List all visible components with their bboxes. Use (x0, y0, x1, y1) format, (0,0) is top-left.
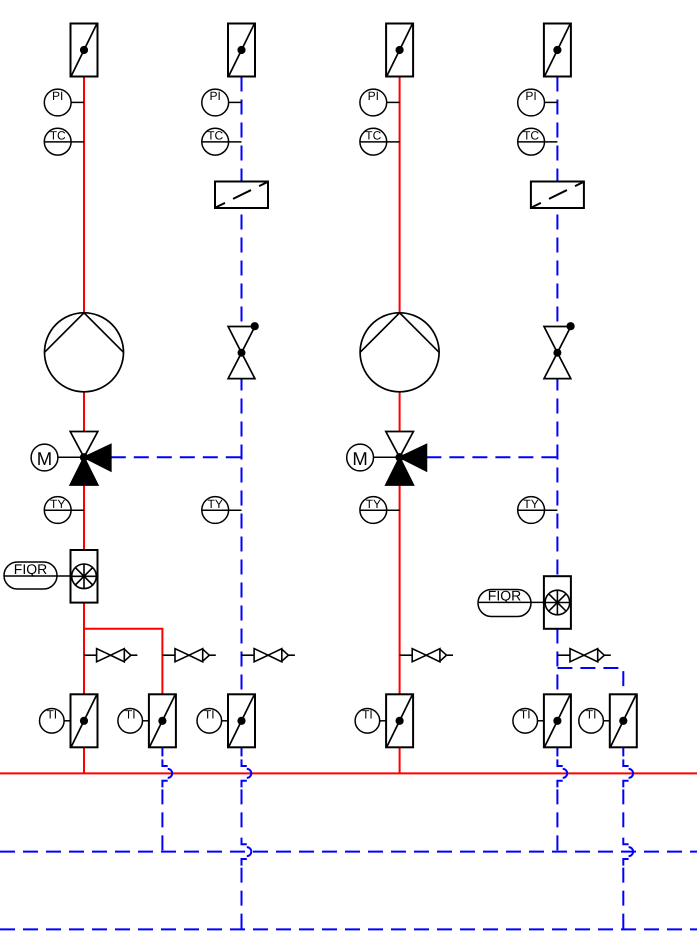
temperature sensor box D (386, 694, 413, 747)
instrument TY 1 chord (44, 509, 84, 511)
instrument TY 3 (360, 497, 387, 524)
pump P2 (360, 313, 439, 392)
svg-text:TI: TI (586, 707, 597, 721)
temperature sensor box B (149, 694, 176, 747)
instrument TI F (579, 709, 604, 734)
instrument TI E stub (537, 720, 544, 722)
wire F2 hop arc over bus (629, 847, 634, 856)
hand valve HV5 (557, 649, 610, 662)
instrument PI line1 stub (71, 101, 84, 103)
instrument TI A stub (64, 720, 71, 722)
motor M V1 (31, 444, 58, 471)
FIQR bubble line1 (4, 562, 57, 589)
wire F2 hop elbow bottom (623, 859, 628, 866)
wire F1 hop elbow top (623, 759, 628, 766)
temperature sensor box A (71, 694, 98, 747)
wire C2 hop elbow bottom (242, 859, 247, 866)
instrument TI A (40, 709, 65, 734)
wire E to blue bus 1 (556, 789, 558, 851)
hand valve HV4 (400, 649, 453, 662)
instrument TI B stub (142, 720, 149, 722)
instrument TC line1 (44, 128, 71, 155)
svg-text:TY: TY (50, 497, 65, 511)
instrument PI line4 (518, 89, 545, 116)
instrument TC line4 (518, 128, 545, 155)
instrument TI B (118, 709, 143, 734)
svg-text:TC: TC (365, 129, 381, 143)
wire blue bus 2 (0, 928, 697, 930)
svg-text:TY: TY (366, 497, 381, 511)
heat exchanger box line1 (71, 24, 98, 77)
heat exchanger box line2 (228, 24, 255, 77)
svg-text:PI: PI (525, 89, 536, 103)
svg-text:TI: TI (204, 707, 215, 721)
wire below TI box E (556, 747, 558, 756)
flow meter line1 (71, 550, 98, 603)
wire C between buses (241, 789, 243, 834)
wire F1 hop arc over bus (629, 769, 634, 778)
wire C1 hop elbow bottom (242, 781, 247, 788)
wire F1 hop elbow bottom (623, 781, 628, 788)
instrument TI D stub (379, 720, 386, 722)
hand valve HV3 (242, 649, 295, 662)
FIQR line link line1 (4, 575, 71, 577)
wire return line 2 (blue dashed) (241, 77, 243, 748)
instrument TI C stub (221, 720, 228, 722)
instrument PI line2 stub (229, 101, 242, 103)
hand valve HV2 (162, 649, 215, 662)
svg-text:TI: TI (520, 707, 531, 721)
svg-text:TY: TY (523, 497, 538, 511)
motor link V2 (373, 456, 400, 458)
svg-text:TC: TC (523, 129, 539, 143)
wire blue elbow branch line4 to TI box F (557, 668, 623, 695)
wire E hop arc over bus (563, 769, 568, 778)
svg-text:PI: PI (368, 89, 379, 103)
FIQR chord line1 (4, 575, 57, 577)
wire C2 hop elbow top (242, 838, 247, 845)
wire B to blue bus 1 (161, 789, 163, 851)
wire blue link valve3 to line4 (426, 456, 557, 458)
wire B hop arc over bus (168, 769, 173, 778)
wire F2 hop elbow top (623, 838, 628, 845)
motor link V1 (58, 456, 85, 458)
FIQR line link line4 (478, 601, 544, 603)
wire return line 4 (blue dashed) (556, 77, 558, 748)
wire supply line 1 (red) (83, 77, 85, 774)
instrument TY 3 chord (360, 509, 400, 511)
svg-text:TC: TC (207, 129, 223, 143)
instrument TY 4 (518, 497, 545, 524)
heat exchanger box line4 (544, 24, 571, 77)
instrument PI line1 (44, 89, 71, 116)
instrument TC line3 (360, 128, 387, 155)
instrument TC line3 chord (360, 141, 400, 143)
flow meter line4 (544, 576, 571, 629)
instrument PI line4 stub (544, 101, 557, 103)
svg-text:FIQR: FIQR (14, 561, 47, 577)
temperature sensor box E (544, 694, 571, 747)
motor M V2 (347, 444, 374, 471)
wire C to blue bus 2 (241, 868, 243, 930)
svg-text:M: M (37, 448, 52, 469)
temperature sensor box C (228, 694, 255, 747)
damper/coil box line4 (531, 182, 584, 209)
wire C1 hop elbow top (242, 759, 247, 766)
wire blue link valve1 to line2 (111, 456, 242, 458)
wire red bus (0, 772, 697, 774)
instrument TY 4 chord (518, 509, 558, 511)
svg-text:FIQR: FIQR (488, 587, 521, 603)
wire F to blue bus 2 (622, 868, 624, 930)
wire blue bus 1 (0, 851, 697, 853)
instrument TI D (355, 709, 380, 734)
temperature sensor box F (610, 694, 637, 747)
FIQR chord line4 (478, 601, 531, 603)
wire below TI box C (241, 747, 243, 756)
wire B hop elbow top (162, 759, 167, 766)
svg-text:PI: PI (210, 89, 221, 103)
wire C2 hop arc over bus (247, 847, 252, 856)
instrument TI F stub (603, 720, 610, 722)
svg-text:TI: TI (46, 707, 57, 721)
control valve line4 (544, 322, 575, 379)
wire E hop elbow top (557, 759, 562, 766)
svg-text:TC: TC (50, 129, 66, 143)
instrument TC line2 (202, 128, 229, 155)
heat exchanger box line3 (386, 24, 413, 77)
control valve line2 (228, 322, 259, 379)
pump P1 (45, 313, 124, 392)
instrument PI line3 stub (387, 101, 400, 103)
hand valve HV1 (84, 649, 137, 662)
three-way valve V2 (386, 432, 427, 486)
damper/coil box line2 (215, 182, 268, 209)
instrument PI line2 (202, 89, 229, 116)
instrument TC line1 chord (44, 141, 84, 143)
instrument TY 1 (44, 497, 71, 524)
instrument TI C (197, 709, 222, 734)
FIQR bubble line4 (478, 590, 531, 617)
wire below TI box F (622, 747, 624, 756)
three-way valve V1 (70, 432, 111, 486)
wire B hop elbow bottom (162, 781, 167, 788)
wire E hop elbow bottom (557, 781, 562, 788)
wire below TI box B (161, 747, 163, 756)
svg-text:PI: PI (52, 89, 63, 103)
svg-text:TI: TI (125, 707, 136, 721)
instrument TY 2 chord (202, 509, 242, 511)
wire F between buses (622, 789, 624, 834)
instrument TC line4 chord (518, 141, 558, 143)
svg-text:TY: TY (208, 497, 223, 511)
instrument TY 2 (202, 497, 229, 524)
wire supply line 3 (red) (399, 77, 401, 774)
wire branch from line 1 to TI box B (84, 629, 162, 695)
svg-text:TI: TI (362, 707, 373, 721)
svg-text:M: M (352, 448, 367, 469)
wire C1 hop arc over bus (247, 769, 252, 778)
instrument TI E (513, 709, 538, 734)
instrument TC line2 chord (202, 141, 242, 143)
instrument PI line3 (360, 89, 387, 116)
